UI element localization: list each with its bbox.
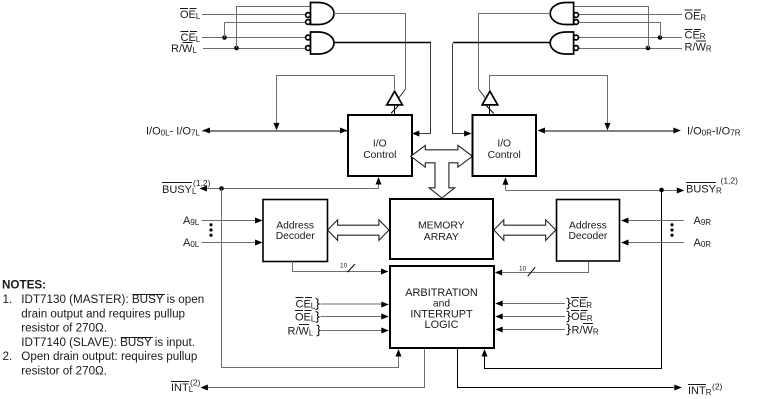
wire INTL from arbitration bbox=[208, 349, 425, 388]
label CER lower bbox=[567, 298, 570, 309]
hollow arrow address decoder left to memory array bbox=[328, 220, 389, 241]
svg-text:1.: 1. bbox=[3, 293, 13, 306]
address ellipsis dots right bbox=[670, 223, 673, 226]
wire R/WL up to gate G1 direct input bbox=[237, 7, 311, 49]
wire CEL to gate G2 input bbox=[202, 37, 306, 39]
svg-text:CEL: CEL bbox=[296, 299, 316, 311]
wire G1 output to buffer enable bbox=[334, 14, 406, 90]
svg-text:Address: Address bbox=[276, 221, 314, 232]
wire A0R bbox=[628, 242, 684, 244]
wire I/O bus left bbox=[203, 130, 348, 132]
node CEL junction bbox=[222, 35, 227, 40]
label R/WR lower bbox=[567, 324, 570, 335]
svg-text:IDT7130 (MASTER): BUSY is open: IDT7130 (MASTER): BUSY is open bbox=[21, 293, 204, 306]
wire R/WL to arbitration bbox=[322, 330, 383, 332]
wire A9R bbox=[628, 220, 684, 222]
svg-text:Decoder: Decoder bbox=[276, 231, 315, 242]
svg-text:R/WL: R/WL bbox=[288, 326, 314, 338]
svg-text:MEMORY: MEMORY bbox=[418, 221, 465, 232]
address ellipsis dots left bbox=[209, 223, 212, 226]
wire CEL up to gate G1 bbox=[225, 23, 306, 38]
wire R/WL to gate G2 input bbox=[203, 48, 306, 50]
svg-text:Address: Address bbox=[569, 221, 607, 232]
tri-state buffer right bbox=[482, 91, 498, 105]
wire INTR from arbitration bbox=[458, 349, 675, 388]
wire R/WR up to gate G3 direct input bbox=[574, 7, 649, 49]
svg-text:R/WR: R/WR bbox=[685, 42, 712, 54]
node BUSYR junction bbox=[659, 188, 664, 193]
svg-text:resistor of 270Ω.: resistor of 270Ω. bbox=[21, 322, 107, 335]
wire OER to arbitration right bbox=[502, 316, 565, 318]
wire BUSYR bbox=[506, 190, 678, 192]
svg-text:A0L: A0L bbox=[183, 237, 200, 249]
node CER junction bbox=[658, 35, 663, 40]
wire G2 output to I/O control left bbox=[334, 42, 431, 44]
svg-text:CER: CER bbox=[571, 298, 592, 310]
buffer left output stem with bus slash bbox=[394, 105, 396, 115]
svg-text:10: 10 bbox=[519, 266, 527, 273]
node R/WL junction bbox=[234, 46, 239, 51]
and-gate G3 right read-enable bbox=[550, 3, 573, 25]
hollow arrow memory array to right address decoder bbox=[494, 220, 556, 241]
svg-text:(2): (2) bbox=[712, 382, 723, 392]
bus 10 from right decoder to arbitration bbox=[502, 262, 589, 273]
svg-text:I/O0L- I/O7L: I/O0L- I/O7L bbox=[146, 126, 200, 138]
svg-text:(2): (2) bbox=[190, 378, 201, 388]
svg-text:Control: Control bbox=[488, 150, 521, 161]
label OER lower bbox=[567, 311, 570, 322]
svg-text:BUSYL: BUSYL bbox=[162, 184, 197, 196]
wire BUSYL bbox=[203, 188, 379, 190]
svg-text:BUSYR: BUSYR bbox=[686, 184, 722, 196]
and-gate G2 left write-enable bbox=[311, 32, 334, 54]
wire BUSYL up into I/O control bbox=[378, 183, 380, 189]
wire CER to gate G4 bbox=[578, 37, 682, 39]
svg-text:A9L: A9L bbox=[183, 215, 200, 227]
node R/WR junction bbox=[646, 46, 651, 51]
svg-text:A0R: A0R bbox=[694, 237, 712, 249]
wire BUSYL down to arbitration bbox=[222, 189, 399, 368]
svg-text:ARRAY: ARRAY bbox=[424, 232, 459, 243]
Address Decoder right box bbox=[557, 200, 620, 262]
wire buffer output to I/O bus bbox=[277, 76, 395, 125]
wire BUSYR down to arbitration bbox=[485, 190, 662, 369]
I/O Control left box U1 bbox=[348, 115, 412, 176]
wire I/O bus right bbox=[545, 130, 673, 132]
wire G3 output to right buffer enable bbox=[479, 14, 551, 90]
bus 10 from left decoder to arbitration bbox=[293, 262, 382, 272]
wire A0L bbox=[202, 242, 257, 244]
I/O Control right box U2 bbox=[473, 115, 537, 176]
svg-text:I/O: I/O bbox=[373, 139, 387, 150]
svg-text:LOGIC: LOGIC bbox=[425, 319, 459, 331]
wire CER to arbitration right bbox=[502, 303, 565, 305]
and-gate G1 left read-enable bbox=[311, 3, 334, 25]
svg-text:I/O: I/O bbox=[497, 139, 511, 150]
wire OEL to gate G1 input bbox=[202, 14, 306, 16]
wire BUSYR up into right I/O control bbox=[505, 183, 507, 191]
G4 input bubbles bbox=[574, 35, 579, 40]
Address Decoder left box bbox=[263, 200, 328, 262]
svg-text:2.: 2. bbox=[3, 350, 13, 363]
wire CEL to arbitration bbox=[321, 303, 383, 305]
svg-text:Control: Control bbox=[363, 150, 396, 161]
svg-text:resistor of 270Ω.: resistor of 270Ω. bbox=[21, 365, 107, 378]
svg-text:INTR: INTR bbox=[688, 385, 712, 397]
svg-text:(1,2): (1,2) bbox=[721, 176, 739, 186]
wire OER to gate G3 bbox=[578, 14, 682, 16]
svg-text:R/WR: R/WR bbox=[572, 325, 599, 337]
svg-text:drain output and requires pull: drain output and requires pullup bbox=[21, 307, 185, 320]
wire CER up to gate G3 bbox=[578, 23, 660, 38]
G1 input bubbles bbox=[306, 13, 311, 18]
svg-text:OEL: OEL bbox=[180, 9, 201, 21]
overline BUSY note 4 bbox=[121, 337, 153, 339]
wire R/WR to arbitration right bbox=[502, 329, 565, 331]
and-gate G4 right write-enable bbox=[550, 32, 573, 54]
G3 input bubbles bbox=[574, 13, 579, 18]
svg-text:NOTES:: NOTES: bbox=[2, 279, 46, 292]
wire A9L bbox=[202, 220, 257, 222]
svg-text:10: 10 bbox=[340, 263, 348, 270]
T-shaped hollow arrow between I/O controls and memory array bbox=[411, 145, 473, 198]
svg-text:R/WL: R/WL bbox=[171, 43, 197, 55]
svg-text:Decoder: Decoder bbox=[568, 231, 607, 242]
svg-text:IDT7140 (SLAVE): BUSY is input: IDT7140 (SLAVE): BUSY is input. bbox=[21, 336, 195, 349]
svg-text:I/O0R-I/O7R: I/O0R-I/O7R bbox=[687, 126, 741, 138]
wire G4 output to I/O control right bbox=[453, 42, 550, 44]
node BUSYL junction bbox=[219, 186, 224, 191]
svg-text:Open drain output: requires pu: Open drain output: requires pullup bbox=[21, 350, 197, 363]
svg-text:OER: OER bbox=[685, 11, 707, 23]
MEMORY ARRAY box bbox=[390, 199, 493, 259]
svg-text:ARBITRATION: ARBITRATION bbox=[405, 287, 477, 299]
svg-text:A9R: A9R bbox=[694, 215, 712, 227]
wire R/WR to gate G4 bbox=[578, 48, 682, 50]
overline BUSY note 1 bbox=[132, 294, 164, 296]
wire right buffer output to I/O bus bbox=[490, 76, 608, 125]
svg-text:OER: OER bbox=[571, 311, 593, 323]
svg-text:CER: CER bbox=[685, 30, 706, 42]
G2 input bubbles bbox=[306, 35, 311, 40]
buffer right output stem with bus slash bbox=[489, 105, 491, 115]
ARBITRATION and INTERRUPT LOGIC box bbox=[390, 266, 494, 348]
wire OEL to arbitration bbox=[321, 316, 383, 318]
svg-text:(1,2): (1,2) bbox=[193, 178, 211, 188]
tri-state buffer left bbox=[387, 91, 403, 105]
svg-text:OEL: OEL bbox=[295, 312, 316, 324]
